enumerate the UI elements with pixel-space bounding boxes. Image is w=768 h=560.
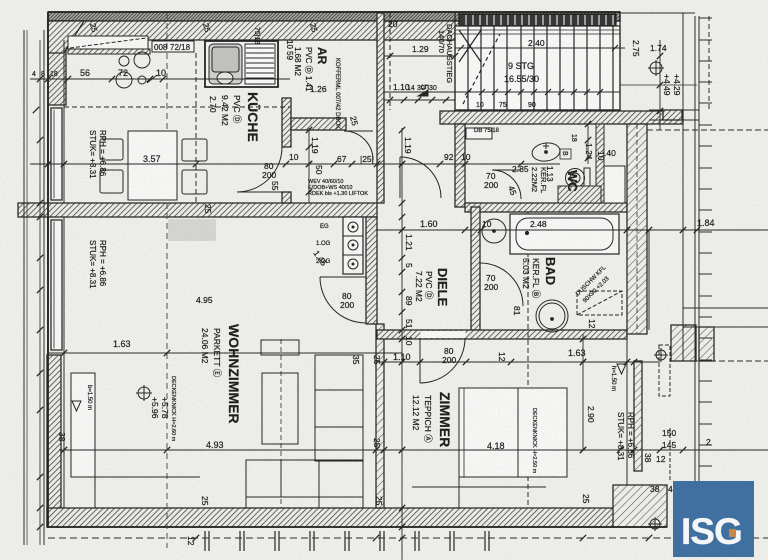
dim line vertical left x40 [39,40,41,545]
wire: neighbour ladder rung ticks [699,17,712,19]
wall: top roof edge dark band [48,12,620,21]
stair right edge [619,13,621,111]
dim line top y100 stairs [384,99,455,101]
dim line vertical x402 [401,128,403,560]
dining chairs [100,139,123,160]
wall: interior band kitchen/living [18,203,377,217]
WC hatch near toilet [558,186,601,203]
wall: DIELE/BAD vertical strip [471,207,480,330]
dim line main horizontal y164 [30,163,560,165]
wire: lines bounding small block right of stairs [620,84,697,86]
wall: below stairs horizontal band [440,111,683,124]
dim line kitchen top y79 [30,78,290,80]
dashed centerline through living furniture [280,339,282,508]
wire: neighbour horizontal lines right of wall [683,307,768,309]
bed [459,388,567,477]
stair bottom edge [455,109,620,111]
WC niche right [604,166,625,203]
elevation marker top right [650,62,662,74]
stair outline [455,26,620,110]
coffee table [261,340,299,355]
wall: meter cabinet vertical strip [366,217,377,324]
logo ISG [673,481,754,557]
dim line y56 stairs top [384,55,455,57]
stair top landing dark bar [459,14,616,26]
wall: left exterior wall hatched band [48,21,66,105]
kitchen drainer hatched [245,44,275,84]
dim line y450 [59,449,768,451]
wall: left lower hatched [47,355,61,527]
WC niche shelf [466,128,492,139]
dim line y362 [377,361,660,363]
wall: right step block [671,325,696,361]
stair treads [467,26,469,110]
stair cross brace [459,30,481,62]
dashed vertical deckenknick zimmer [527,212,529,508]
wall: top exterior wall hatched band [48,21,460,40]
BAD bathtub [510,214,619,254]
wire: top line between stairs and right wall [620,12,695,14]
wire: neighbour wall double line [694,16,696,545]
door kitchen arc [237,147,282,192]
BAD washbasin round [482,219,506,243]
label box 008 72/18 [152,41,194,52]
elevation marker living [138,387,150,399]
door zimmer arc [420,338,465,383]
wire: bottom dashed terrace line [48,537,768,539]
wall: WC/BAD band [465,203,627,212]
kitchen sink unit [205,41,278,87]
wall: kitchen right vertical strip upper [282,98,291,147]
wall: right exterior wall hatched band [627,124,647,334]
sofa L vertical part [315,355,363,461]
triangle marker living window [72,401,81,411]
wire: neighbour dashed vertical [708,16,710,110]
door living room arc [320,277,366,323]
BAD boiler circle [536,300,568,332]
wire: neighbour horizontal dashed at y130 [647,129,768,131]
dim ticks (45 deg) [37,76,43,82]
triangle marker zimmer right [617,364,626,374]
wall: bottom exterior wall hatched band [47,508,649,527]
door AR arc [344,131,373,160]
dashed rect right side roof [659,345,670,396]
door WC arc [492,170,521,199]
BAD shower dashed tray [577,291,622,315]
wall: kitchen right vertical strip lower [282,192,291,203]
wall: neighbour block right [699,327,714,361]
wire: top outer edge thick [48,11,620,13]
elevation marker right mid [656,350,666,360]
balcony door frame [71,373,95,477]
kitchen counter left [68,36,148,49]
wall: AR/staircase vertical wall [377,13,384,203]
kitchen stove circles [119,56,129,66]
meter cabinet [343,217,363,274]
wall: living/zimmer vertical wall [376,324,384,508]
wire: kitchen inner boundary left [63,40,65,203]
wire: bottom outer edge thick [47,526,667,528]
WC toilet [566,169,585,188]
dashed vertical right lower [669,428,671,481]
door gap in zimmer band [421,331,466,338]
short dim line living 1.63 [48,352,402,354]
wall: small hatch block right of stairs [663,110,682,120]
dim line vertical x309 [308,128,310,203]
stair walk line diagonal [463,34,500,104]
wall: top-left corner wide piece [48,21,84,53]
wall: bottom right corner block [613,485,667,527]
vertical line right of bad wall [648,230,650,330]
meter dials [348,222,358,232]
door BAD arc [480,263,523,306]
dim line vertical x583 zimmer [582,334,584,450]
dim line y230 [376,229,768,231]
dim line vertical x588 wc [587,124,589,164]
wall: diele/zimmer band [377,330,627,339]
sofa bottom part [246,460,363,508]
terrace fence tick groups on bottom dashed line [204,531,206,551]
left outer dim track lines [23,30,25,545]
wall: DIELE/WC vertical strip [455,124,465,207]
wall: AR bottom band [291,118,346,130]
dim line vertical x660 right [659,40,661,130]
elevation marker bottom right [650,519,660,529]
table2 [262,373,298,444]
wall: right narrow wall below [634,361,642,471]
wall: left thin segment with windows [47,105,49,355]
section mark 5 top [418,90,428,96]
wire: left outer edge thick [47,12,49,527]
stamp artifact patches [168,219,216,241]
wire: living room inner boundary left [63,217,65,508]
wire: right exterior vertical line [682,13,684,361]
WC washbasin [531,141,561,163]
kitchen dashed ceiling line [64,106,290,108]
wire: dashed centerline in right wall [636,124,638,334]
dining table [128,131,177,200]
door diele from kitchen area arc [400,157,441,198]
